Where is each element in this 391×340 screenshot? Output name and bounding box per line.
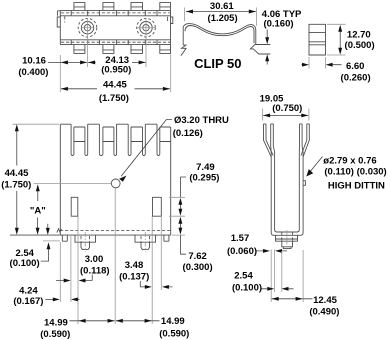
svg-text:7.49: 7.49 [196,162,215,173]
front body edges [10,124,171,235]
plan hidden lines [61,13,170,42]
plan body outline [60,10,170,44]
svg-text:6.60: 6.60 [346,61,365,72]
svg-text:(0.126): (0.126) [173,128,203,139]
dim 1.57 [227,233,287,257]
svg-text:14.99: 14.99 [161,316,185,327]
pin P2 [135,235,156,249]
plan left hook [57,17,60,27]
bottom extension lines [60,188,161,324]
dim 2.54 right [232,250,303,303]
svg-text:(0.118): (0.118) [80,266,110,277]
dim 30.61 [185,1,257,26]
side pin [276,235,298,248]
clip spring curve [183,24,256,46]
hidden line above base [60,230,171,232]
plan bottom tabs [74,45,171,54]
svg-text:(0.590): (0.590) [40,329,70,340]
svg-text:HIGH DITTIN: HIGH DITTIN [328,180,385,191]
side channel outer [271,152,303,235]
dim 4.06 TYP [262,9,302,65]
svg-text:1.57: 1.57 [231,233,250,244]
dim 12.70 [327,24,375,55]
right base tab [164,235,169,241]
svg-text:(0.950): (0.950) [101,64,131,75]
svg-text:(0.500): (0.500) [345,40,375,51]
side right inner prong [299,124,303,152]
dim 12.45 [272,295,340,318]
dim A [30,184,50,235]
end view body [309,24,326,55]
svg-text:(1.750): (1.750) [1,180,31,191]
plan right hook [168,17,173,24]
dim 44.45 top [61,55,171,105]
svg-text:(0.110) (0.030): (0.110) (0.030) [324,166,386,177]
hole leader [121,120,172,177]
svg-text:(0.100): (0.100) [232,283,262,294]
svg-text:ø2.79 x 0.76: ø2.79 x 0.76 [323,156,376,167]
side channel inner [275,152,300,232]
svg-text:14.99: 14.99 [44,317,68,328]
svg-text:4.24: 4.24 [19,286,38,297]
svg-text:10.16: 10.16 [22,55,46,66]
dim 44.45 left [1,124,59,235]
svg-text:(0.100): (0.100) [10,258,40,269]
dim 3.48 [119,260,172,289]
svg-text:(0.490): (0.490) [309,307,339,318]
dim 14.99 left [40,317,114,340]
mounting hole circle [111,179,120,188]
lower slot R [153,197,162,216]
dim 4.24 [13,286,79,308]
dimple leader [309,157,323,174]
lower slot L [71,197,78,216]
svg-text:Ø3.20 THRU: Ø3.20 THRU [174,115,229,126]
svg-text:(1.205): (1.205) [208,13,238,24]
hole H1 [78,18,97,67]
side left inner prong [271,124,275,152]
svg-text:(0.590): (0.590) [159,328,189,339]
dim 10.16 [18,55,87,92]
svg-text:(0.060): (0.060) [227,246,257,257]
clip right foot [250,45,270,55]
svg-text:3.48: 3.48 [125,260,144,271]
svg-text:44.45: 44.45 [103,80,127,91]
dim 3.00 [56,254,110,283]
svg-text:12.45: 12.45 [313,295,337,306]
left base tab [62,235,67,241]
svg-text:(0.750): (0.750) [272,103,302,114]
svg-text:"A": "A" [30,206,46,217]
svg-text:(0.295): (0.295) [189,173,219,184]
dim 19.05 [260,93,309,120]
hole H2 [137,18,156,67]
svg-text:(0.160): (0.160) [263,18,293,29]
side left outer prong [264,124,274,157]
svg-text:(0.167): (0.167) [13,296,43,307]
svg-text:(1.750): (1.750) [99,93,129,104]
svg-text:(0.260): (0.260) [341,72,371,83]
front top fins profile [60,124,170,155]
svg-text:12.70: 12.70 [347,30,371,41]
svg-text:2.54: 2.54 [234,271,253,282]
svg-text:(0.400): (0.400) [18,67,48,78]
clip left leg break mark [181,45,186,56]
side prong caps [264,123,310,125]
dim 6.60 [302,57,371,83]
mounting hole line [34,182,112,184]
svg-text:7.62: 7.62 [188,251,207,262]
side dimple [303,181,305,186]
svg-text:(0.137): (0.137) [119,272,149,283]
svg-text:30.61: 30.61 [210,1,234,12]
dim 7.49 / 7.62 right [169,162,219,273]
pin P1 [75,235,96,249]
dim 2.54 left [10,241,60,269]
svg-text:3.00: 3.00 [85,254,104,265]
svg-text:(0.300): (0.300) [183,262,213,273]
dim 14.99 right [116,316,190,340]
plan fin edge ticks [71,10,157,44]
plan top tabs [74,3,171,11]
svg-text:CLIP 50: CLIP 50 [194,56,241,71]
dim 24.13 [88,55,146,75]
svg-text:44.45: 44.45 [5,168,29,179]
side right outer prong [301,124,309,157]
